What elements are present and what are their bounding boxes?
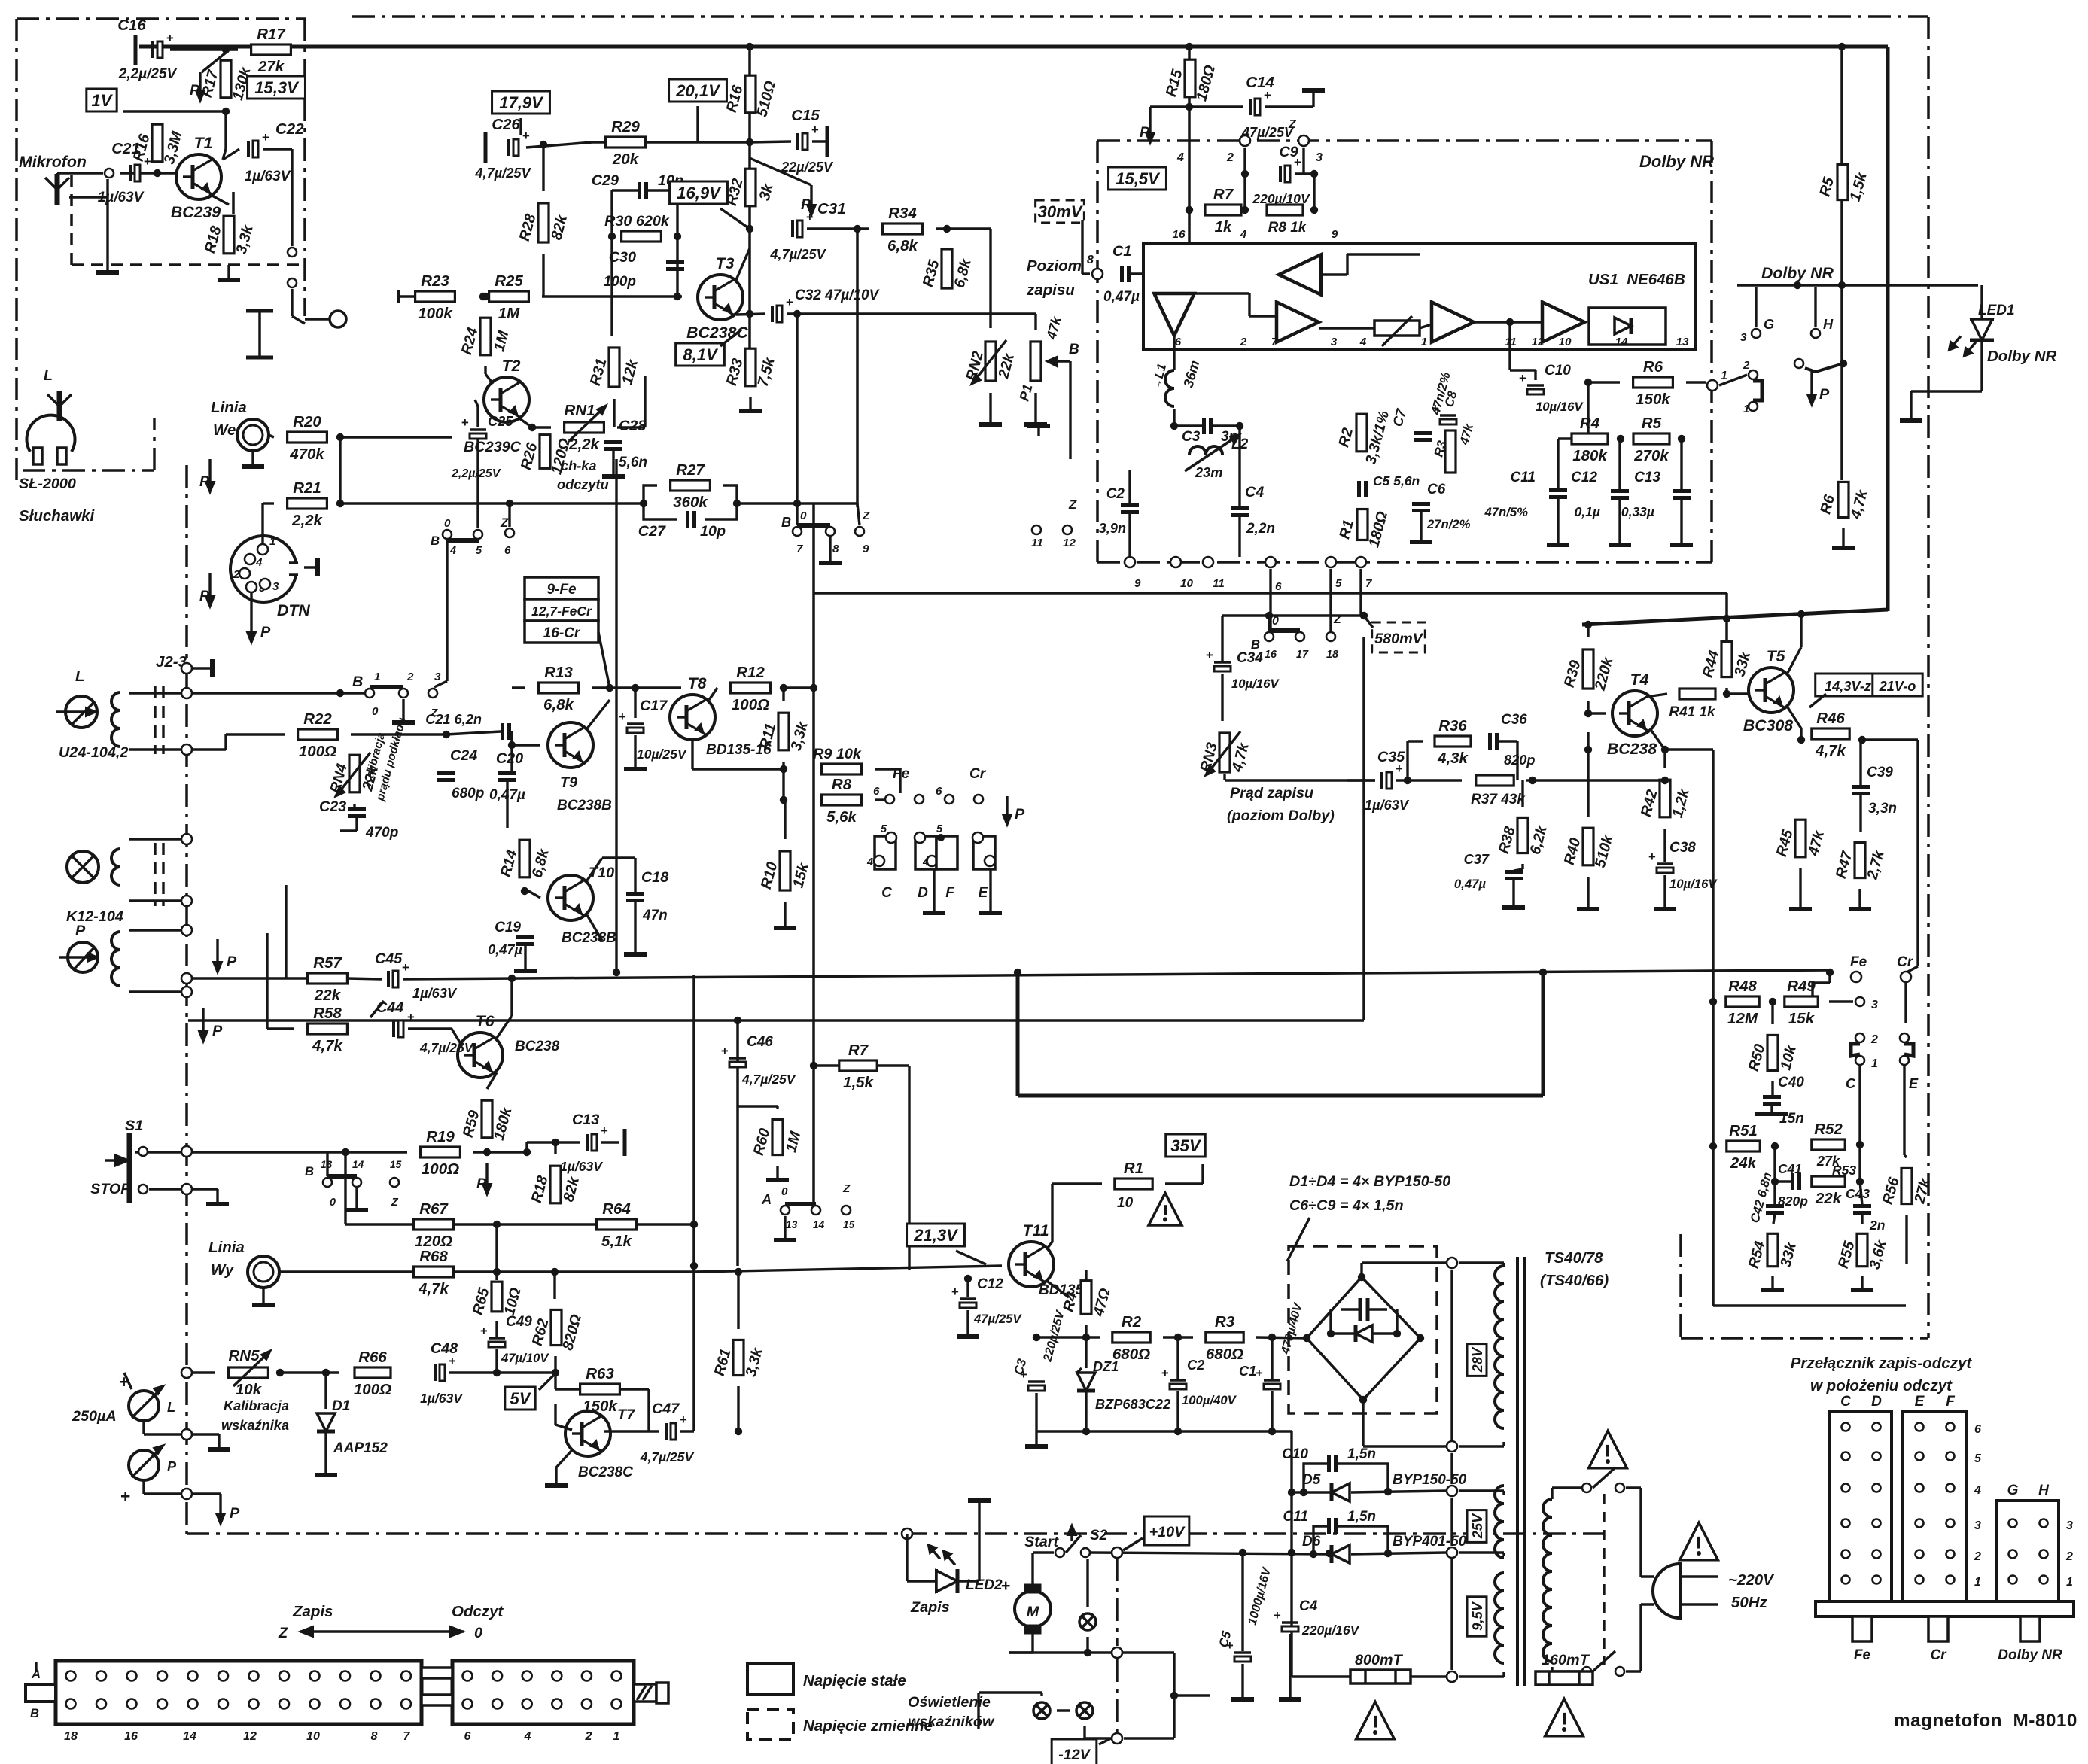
wire C34 to RN3 bbox=[1221, 674, 1223, 721]
svg-text:2: 2 bbox=[1226, 151, 1234, 164]
wire R62 top bbox=[553, 1272, 555, 1299]
svg-text:1,5n: 1,5n bbox=[1347, 1509, 1376, 1525]
wire T4 emitter to R42 bbox=[1651, 731, 1665, 750]
svg-text:R30 620k: R30 620k bbox=[604, 213, 670, 230]
svg-text:C32 47µ/10V: C32 47µ/10V bbox=[795, 287, 880, 303]
svg-text:C13: C13 bbox=[1634, 470, 1660, 485]
svg-text:Dolby NR: Dolby NR bbox=[1761, 264, 1834, 282]
wire R7' drop to output row bbox=[908, 1066, 910, 1270]
wire T7 base bbox=[554, 1404, 556, 1425]
ground Linia Wy bbox=[262, 1288, 264, 1299]
wire bottom dash-dot to right bbox=[1124, 1737, 1174, 1739]
wire head P bbox=[129, 929, 181, 931]
resistor R51 24k bbox=[1727, 1141, 1760, 1151]
pin 3 contact on box top bbox=[1298, 135, 1309, 146]
detector diode box inside US1 bbox=[1589, 308, 1666, 345]
svg-text:Fe: Fe bbox=[1850, 954, 1867, 970]
wire T5 emitter to R46 node bbox=[1788, 707, 1801, 728]
svg-text:BC238B: BC238B bbox=[557, 798, 612, 814]
capacitor C3 3n bbox=[1202, 418, 1206, 434]
wire C1 to amp bbox=[1131, 272, 1174, 275]
junction x=922 y=1682 bbox=[690, 1262, 698, 1270]
wire S1 lower to ground bbox=[149, 1188, 181, 1190]
wire primary stubs bbox=[1459, 1261, 1504, 1264]
bridge rectifier dashed enclosure bbox=[1289, 1246, 1437, 1413]
svg-text:D1÷D4 = 4× BYP150-50: D1÷D4 = 4× BYP150-50 bbox=[1289, 1173, 1450, 1190]
svg-text:+: + bbox=[522, 129, 530, 143]
resistor R52 27k bbox=[1812, 1139, 1845, 1150]
wire R11 bottom to R8 row bbox=[782, 762, 784, 800]
svg-text:T4: T4 bbox=[1630, 671, 1649, 689]
wire bottom terminal drops bbox=[1269, 569, 1271, 637]
wire C31 to R34 bbox=[807, 227, 869, 230]
contact H bbox=[1811, 329, 1820, 338]
ground C5' bbox=[1241, 1664, 1243, 1693]
wire - T1 emitter to R18 bbox=[209, 194, 229, 205]
svg-text:C2: C2 bbox=[1106, 486, 1125, 502]
svg-text:C19: C19 bbox=[495, 920, 521, 935]
zener diode DZ1 BZP683C22 bbox=[1085, 1337, 1087, 1368]
C40 bottom bar bbox=[1770, 1105, 1773, 1114]
svg-text:C36: C36 bbox=[1501, 712, 1527, 728]
wire L1 top bbox=[1173, 350, 1175, 370]
wire R57 row bbox=[187, 977, 308, 979]
wire - RN4 to C23 bbox=[353, 804, 355, 808]
svg-text:H: H bbox=[1823, 317, 1834, 332]
wire R1' row bbox=[1052, 1182, 1102, 1185]
svg-text:1,5k: 1,5k bbox=[843, 1074, 874, 1091]
svg-text:T6: T6 bbox=[476, 1012, 495, 1030]
svg-text:Z: Z bbox=[862, 509, 870, 522]
svg-text:1µ/63V: 1µ/63V bbox=[420, 1391, 463, 1406]
ground - mic input bbox=[106, 179, 108, 265]
capacitor C9 220u/10V bbox=[1279, 166, 1282, 182]
svg-text:0: 0 bbox=[1272, 615, 1279, 628]
resistor R21 2,2k bbox=[288, 498, 327, 509]
svg-text:4,7µ/25V: 4,7µ/25V bbox=[769, 247, 826, 262]
resistor R47 2,7k bbox=[1855, 842, 1865, 877]
svg-text:T3: T3 bbox=[716, 254, 735, 272]
wire - jack to C21 bbox=[56, 173, 58, 174]
svg-text:zapisu: zapisu bbox=[1026, 281, 1075, 299]
wire T10 collector bbox=[587, 858, 602, 880]
svg-text:P: P bbox=[75, 923, 86, 939]
variable resistor inside US1 bbox=[1374, 321, 1420, 336]
svg-text:C14: C14 bbox=[1246, 74, 1274, 91]
diode inside bridge bbox=[1356, 1325, 1372, 1342]
svg-text:3: 3 bbox=[1974, 1519, 1981, 1532]
svg-text:R13: R13 bbox=[544, 664, 573, 681]
connector tab A/B bbox=[26, 1684, 56, 1702]
wire - R22 right to C24 node bbox=[351, 733, 446, 735]
legend solid box - Napiecie stale bbox=[747, 1664, 793, 1694]
svg-text:23m: 23m bbox=[1195, 465, 1222, 480]
svg-text:28V: 28V bbox=[1470, 1346, 1485, 1373]
wire C12' top bbox=[966, 1279, 969, 1297]
wire G contact drop bbox=[1755, 287, 1757, 327]
wire - microphone section dashed enclosure bottom bbox=[72, 263, 305, 266]
wire - vertical riser x=1812 to Dolby switch bbox=[1362, 637, 1365, 1020]
svg-text:12,7-FeCr: 12,7-FeCr bbox=[531, 604, 592, 619]
wire - long mid vertical x=819 (ch-ka odczytu feed) bbox=[615, 459, 617, 972]
wire - long bus y=1356 bbox=[188, 1019, 1364, 1022]
ground connector E bbox=[989, 869, 991, 907]
wire - thick rail y=1456 bbox=[1018, 1094, 1543, 1098]
wire - right supply rail horizontal (thick) bbox=[1582, 610, 1888, 625]
wafer tab Fe bbox=[1852, 1616, 1872, 1641]
ground R33 bbox=[749, 397, 751, 405]
junction head L / bias bbox=[336, 689, 344, 697]
resistor R4 180k bbox=[1572, 433, 1608, 444]
capacitor C19 0,47u bbox=[516, 935, 534, 939]
lamp - Oswietlenie right bbox=[1076, 1702, 1093, 1719]
svg-text:C10: C10 bbox=[1545, 363, 1571, 379]
svg-text:3: 3 bbox=[1316, 151, 1323, 164]
svg-text:0,47µ: 0,47µ bbox=[1454, 877, 1486, 891]
svg-text:11: 11 bbox=[1505, 336, 1517, 348]
svg-text:C26: C26 bbox=[492, 116, 520, 133]
legend dashed box - Napiecie zmienne bbox=[747, 1709, 793, 1739]
resistor R3' 680R bbox=[1206, 1332, 1243, 1343]
wire motor bottom bbox=[1031, 1633, 1033, 1653]
capacitor C42 6,8n bbox=[1766, 1204, 1784, 1208]
voltage box 16,9V bbox=[670, 181, 728, 204]
erase core dashed bbox=[154, 843, 156, 906]
resistor R22 100R bbox=[298, 729, 338, 740]
svg-text:+: + bbox=[1519, 371, 1526, 385]
wafer tab Dolby bbox=[2020, 1616, 2040, 1641]
svg-text:6: 6 bbox=[464, 1730, 471, 1743]
capacitor C23 470p bbox=[348, 807, 366, 811]
wire C5' top bbox=[1241, 1553, 1243, 1651]
resistor R5'' 1,5k bbox=[1837, 164, 1848, 199]
svg-text:R7: R7 bbox=[1213, 186, 1234, 203]
wire - 17,9V drop bbox=[519, 118, 522, 135]
svg-text:R51: R51 bbox=[1729, 1122, 1758, 1139]
inductor L2 23m adjustable bbox=[1189, 446, 1222, 455]
connector circle on mic/line route bbox=[330, 311, 346, 327]
resistor R44 33k bbox=[1721, 641, 1732, 677]
junction R12 right bbox=[810, 684, 817, 692]
wire C20/C21 junction bbox=[510, 731, 513, 772]
arrow P R19 bbox=[485, 1163, 488, 1185]
wire Cr drop bbox=[1904, 983, 1907, 1023]
ground C17 bbox=[634, 735, 636, 763]
wire C39 column bbox=[1859, 740, 1861, 786]
svg-text:R63: R63 bbox=[586, 1365, 614, 1382]
svg-text:0: 0 bbox=[444, 517, 451, 530]
ground contact 8 bbox=[829, 537, 831, 557]
motor M bbox=[1015, 1591, 1051, 1627]
wire fuse row bbox=[1292, 1675, 1350, 1677]
svg-text:250µA: 250µA bbox=[72, 1408, 117, 1425]
svg-text:0: 0 bbox=[330, 1197, 336, 1209]
wafer block C-D bbox=[1829, 1412, 1892, 1601]
svg-text:1µ/63V: 1µ/63V bbox=[560, 1159, 603, 1174]
amp A5 (right) bbox=[1542, 302, 1584, 342]
resistor R17 27k bbox=[251, 44, 291, 55]
wire - outer frame right border (dash-dot) bbox=[1927, 17, 1930, 1338]
svg-text:1µ/63V: 1µ/63V bbox=[1365, 798, 1410, 813]
svg-text:+: + bbox=[1274, 1608, 1281, 1623]
capacitor C30 100p bbox=[666, 260, 684, 264]
wire C48 to C49 node bbox=[449, 1371, 497, 1373]
svg-text:P: P bbox=[476, 1175, 487, 1192]
wire - main top supply bus bbox=[139, 45, 1888, 49]
pot P1 47k bbox=[1030, 342, 1041, 381]
capacitor C28 5,6n bbox=[604, 440, 622, 444]
svg-text:0: 0 bbox=[781, 1185, 788, 1198]
svg-text:47n/5%: 47n/5% bbox=[1484, 505, 1528, 519]
svg-text:R58: R58 bbox=[313, 1005, 342, 1022]
svg-text:Z: Z bbox=[391, 1197, 399, 1209]
warning triangle right bottom bbox=[1545, 1699, 1584, 1735]
svg-text:BC308: BC308 bbox=[1743, 716, 1793, 734]
svg-text:9: 9 bbox=[863, 543, 869, 555]
svg-text:27k: 27k bbox=[257, 58, 285, 75]
svg-text:4: 4 bbox=[449, 545, 456, 557]
svg-text:C5 5,6n: C5 5,6n bbox=[1373, 473, 1420, 488]
resistor R25 1M bbox=[489, 291, 529, 302]
wire C13 row bbox=[527, 1141, 580, 1143]
wire R38 bottom to C37 bbox=[1521, 864, 1523, 869]
resistor R63 150k bbox=[580, 1384, 620, 1394]
svg-text:10: 10 bbox=[1180, 577, 1193, 590]
capacitor C41 820p bbox=[1791, 1173, 1794, 1190]
wire - thick rail riser x=1352 to bus bbox=[1016, 972, 1020, 1096]
svg-text:C28: C28 bbox=[619, 418, 646, 434]
svg-text:30mV: 30mV bbox=[1038, 202, 1084, 221]
wire voltage callout bbox=[1809, 694, 1826, 707]
junction R23/R25 bbox=[479, 293, 487, 300]
terminal - head L lower bbox=[181, 744, 192, 755]
end connector hatched bbox=[634, 1684, 656, 1702]
svg-text:7: 7 bbox=[403, 1730, 411, 1743]
resistor R12 100R bbox=[731, 683, 771, 693]
35V voltage box bbox=[1166, 1134, 1206, 1157]
svg-text:17,9V: 17,9V bbox=[499, 93, 544, 112]
svg-text:680Ω: 680Ω bbox=[1206, 1346, 1243, 1363]
wire R40 col bbox=[1587, 732, 1589, 817]
svg-text:+: + bbox=[402, 960, 409, 975]
svg-text:Linia: Linia bbox=[208, 1239, 245, 1256]
svg-text:6,8k: 6,8k bbox=[887, 237, 918, 254]
capacitor C26 4,7u/25V bbox=[484, 132, 488, 163]
svg-text:B: B bbox=[781, 515, 791, 530]
microphone jack symbol bbox=[55, 174, 60, 205]
bias frequency table 16-Cr bbox=[525, 621, 598, 643]
ground R10 bbox=[784, 902, 786, 922]
trimmer RN1 2,2k ch-ka odczytu bbox=[565, 422, 604, 433]
transistor T2 BC239C bbox=[484, 377, 529, 422]
svg-text:Wy: Wy bbox=[211, 1261, 235, 1279]
capacitor C21' 6,2n bbox=[501, 723, 504, 740]
wire - microphone section dashed enclosure left bbox=[70, 175, 73, 265]
wire - record line y=788 bbox=[814, 592, 1727, 595]
svg-text:1: 1 bbox=[1974, 1576, 1981, 1589]
capacitor C13 0,33u bbox=[1673, 489, 1691, 493]
DTN connector circle bbox=[230, 536, 297, 602]
playback head P symbol bbox=[68, 942, 98, 972]
svg-text:9: 9 bbox=[1332, 228, 1338, 241]
wafer base bar bbox=[1816, 1601, 2074, 1616]
callout line to bridge bbox=[1287, 1218, 1310, 1261]
node - open terminal on bottom rail bbox=[902, 1528, 912, 1539]
svg-text:C37: C37 bbox=[1464, 852, 1490, 867]
wire R27 loop box bbox=[644, 485, 657, 503]
lamp - drive indicator bbox=[1079, 1613, 1096, 1630]
wire erase head bbox=[129, 838, 181, 840]
svg-text:15: 15 bbox=[843, 1219, 855, 1230]
svg-text:SŁ-2000: SŁ-2000 bbox=[19, 476, 76, 492]
wire supply column x=1716 bbox=[1290, 1431, 1292, 1677]
svg-text:C10: C10 bbox=[1282, 1446, 1308, 1462]
wire T6 collector bbox=[497, 1016, 512, 1038]
C13' termination bar bbox=[623, 1129, 627, 1156]
resistor R4' 47R bbox=[1081, 1281, 1091, 1315]
resistor R62 820R bbox=[551, 1309, 562, 1345]
resistor R3 47k bbox=[1445, 430, 1456, 473]
resistor R1' 10R bbox=[1115, 1179, 1152, 1189]
wire R46 left bbox=[1799, 734, 1801, 740]
svg-text:BC238: BC238 bbox=[1607, 740, 1657, 758]
svg-text:+: + bbox=[262, 130, 269, 144]
wire T8 collector to R12 bbox=[709, 688, 717, 700]
svg-text:C22: C22 bbox=[275, 120, 304, 138]
wire R60 top bbox=[737, 1109, 738, 1111]
-12V box bbox=[1052, 1739, 1097, 1764]
contact Fe right bbox=[915, 795, 924, 804]
capacitor C14 47u/25V bbox=[1249, 99, 1252, 115]
svg-text:BYP150-50: BYP150-50 bbox=[1393, 1472, 1467, 1488]
wire - long bus y=1292 (through R57/C45) bbox=[403, 970, 1830, 979]
svg-text:Prąd zapisu: Prąd zapisu bbox=[1230, 785, 1313, 801]
resistor R57 22k bbox=[308, 973, 348, 984]
voltage box 15,5V bbox=[1109, 167, 1167, 190]
capacitor C29 10n bbox=[638, 182, 641, 199]
ground below contact 2 bbox=[402, 699, 404, 716]
transformer terminal 28V bottom bbox=[1447, 1441, 1457, 1452]
svg-text:3: 3 bbox=[272, 580, 279, 593]
svg-text:C48: C48 bbox=[431, 1340, 458, 1357]
svg-text:A: A bbox=[761, 1192, 772, 1207]
svg-text:TS40/78: TS40/78 bbox=[1545, 1249, 1603, 1267]
svg-text:B: B bbox=[431, 534, 440, 548]
wire C35 left bbox=[1347, 779, 1375, 781]
svg-text:B: B bbox=[1069, 342, 1079, 357]
svg-text:14: 14 bbox=[352, 1159, 364, 1170]
svg-text:Cr: Cr bbox=[1897, 954, 1914, 970]
svg-text:4,3k: 4,3k bbox=[1437, 750, 1469, 767]
transistor T3 BC238C bbox=[698, 275, 743, 320]
svg-text:2n: 2n bbox=[1869, 1218, 1885, 1233]
wire R13 row bbox=[512, 686, 525, 689]
wire - divider to T1 collector bbox=[224, 111, 227, 149]
arrow P - DTN left bbox=[208, 573, 211, 598]
wire RN3 bottom to C35 row bbox=[1223, 774, 1225, 780]
svg-text:C45: C45 bbox=[375, 950, 403, 967]
svg-text:10k: 10k bbox=[236, 1381, 263, 1398]
transistor T1 BC239 bbox=[176, 154, 221, 199]
wire C38 bbox=[1663, 829, 1666, 862]
svg-text:DZ1: DZ1 bbox=[1093, 1359, 1119, 1374]
svg-text:14: 14 bbox=[813, 1219, 825, 1230]
svg-text:+: + bbox=[144, 154, 151, 169]
svg-text:C23: C23 bbox=[319, 798, 346, 815]
svg-text:13: 13 bbox=[1676, 336, 1689, 348]
svg-text:C1: C1 bbox=[1112, 243, 1131, 260]
svg-text:10µ/16V: 10µ/16V bbox=[1669, 877, 1718, 891]
svg-text:R9 10k: R9 10k bbox=[813, 746, 862, 762]
svg-text:Zapis: Zapis bbox=[910, 1599, 950, 1616]
svg-text:R66: R66 bbox=[358, 1349, 387, 1366]
capacitor C36 820p bbox=[1488, 733, 1492, 750]
svg-text:10: 10 bbox=[1117, 1195, 1134, 1211]
svg-text:4: 4 bbox=[1359, 336, 1367, 348]
svg-text:(TS40/66): (TS40/66) bbox=[1540, 1272, 1609, 1289]
svg-text:4: 4 bbox=[922, 856, 929, 868]
wire 5V callout bbox=[539, 1373, 556, 1390]
svg-text:+: + bbox=[407, 1010, 415, 1024]
svg-text:10: 10 bbox=[306, 1730, 320, 1743]
resistor R16 3,3M bbox=[152, 124, 163, 162]
voltage box 25V rotated bbox=[1467, 1510, 1487, 1543]
wire - inner left vertical frame (dash-dot) bbox=[185, 465, 188, 1534]
wire x=1929 column bbox=[1450, 1270, 1453, 1440]
capacitor C7 47n/2% bbox=[1414, 431, 1432, 435]
svg-text:2: 2 bbox=[1743, 359, 1750, 372]
resistor R31 12k bbox=[609, 348, 619, 387]
wire meters bbox=[124, 1373, 132, 1389]
warning triangle above mains switch bbox=[1589, 1431, 1627, 1467]
svg-text:+: + bbox=[811, 123, 819, 137]
svg-text:R36: R36 bbox=[1438, 717, 1467, 734]
capacitor C17 10u/25V bbox=[627, 722, 644, 725]
svg-text:10µ/25V: 10µ/25V bbox=[637, 747, 687, 762]
arrow P - supply bbox=[1149, 107, 1151, 114]
svg-text:R21: R21 bbox=[293, 479, 321, 497]
svg-text:Poziom: Poziom bbox=[1027, 257, 1082, 275]
svg-text:3,3n: 3,3n bbox=[1868, 801, 1897, 817]
bias frequency table 12,7-FeCr bbox=[525, 599, 598, 621]
wire R50 bbox=[1771, 1002, 1773, 1024]
node circle lamp row bbox=[1112, 1647, 1122, 1658]
arrow P - DTN pin5 bbox=[250, 592, 252, 611]
junction R21 right bbox=[336, 500, 344, 507]
svg-text:8,1V: 8,1V bbox=[683, 345, 719, 364]
wire R38 top bbox=[1521, 780, 1523, 807]
contact Z-6 left bbox=[505, 528, 514, 537]
wire C2' bbox=[1176, 1337, 1179, 1379]
switch pair contacts right with P bbox=[1794, 359, 1803, 368]
ground - R18 bbox=[227, 265, 230, 272]
svg-text:P: P bbox=[1140, 124, 1150, 141]
capacitor C20 0,47u bbox=[498, 771, 516, 775]
wire R7' row bbox=[814, 1064, 840, 1066]
wire R68 row bbox=[279, 1270, 414, 1273]
svg-text:16-Cr: 16-Cr bbox=[543, 625, 581, 641]
resistor R18 3,3k bbox=[224, 216, 234, 254]
resistor R45 47k bbox=[1795, 820, 1806, 857]
voltage box 17,9V bbox=[492, 91, 550, 114]
svg-text:R8: R8 bbox=[832, 776, 852, 793]
svg-text:15k: 15k bbox=[1788, 1010, 1816, 1027]
capacitor C1' 470u/40V bbox=[1264, 1379, 1280, 1382]
svg-text:R1: R1 bbox=[1124, 1160, 1143, 1177]
wire R50 to C40 bbox=[1771, 1081, 1773, 1096]
capacitor C2' 100u/40V bbox=[1170, 1379, 1186, 1382]
wire - top bus right corner drop (thick) bbox=[1886, 47, 1890, 611]
